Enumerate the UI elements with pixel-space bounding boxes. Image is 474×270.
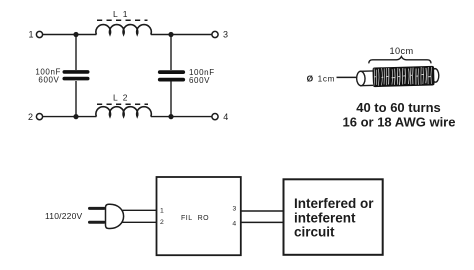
inductor L2	[96, 93, 151, 117]
svg-text:FIL: FIL	[181, 215, 193, 222]
plug P1	[90, 204, 124, 228]
inductor L1 cusp dots	[109, 32, 139, 34]
wire: terminal 1 to L1	[43, 34, 97, 36]
svg-text:110/220V: 110/220V	[45, 211, 82, 221]
wire: top junction to C1	[75, 35, 77, 71]
svg-text:1: 1	[160, 207, 164, 214]
wire: top junction to C2	[170, 35, 172, 71]
inductor L1	[96, 9, 151, 34]
svg-text:RO: RO	[198, 215, 210, 222]
wire: terminal 2 to L2	[43, 116, 97, 118]
svg-text:600V: 600V	[38, 76, 59, 85]
note: 40 to 60 turns / 16 or 18 AWG wire	[343, 100, 456, 129]
right end cap	[431, 69, 439, 83]
svg-text:1cm: 1cm	[318, 74, 336, 83]
svg-text:2: 2	[28, 112, 33, 122]
wound wire body	[373, 66, 435, 87]
wire: FIL RO pin 3 to circuit box	[241, 210, 284, 212]
wire: C1 to bottom junction	[75, 81, 77, 117]
junction node bottom-left	[73, 114, 78, 119]
svg-text:Interfered or: Interfered or	[294, 196, 374, 211]
terminal 2	[28, 112, 43, 122]
svg-text:inteferent: inteferent	[294, 210, 356, 225]
capacitor C2 100nF 600V	[160, 68, 215, 85]
coil illustration: diameter label Ø 1cm with leader	[307, 73, 357, 83]
wire: L2 to terminal 4	[151, 116, 212, 118]
inductor L2 cusp dots	[109, 114, 139, 116]
svg-text:L 2: L 2	[113, 93, 129, 103]
junction node top-left	[73, 32, 78, 37]
junction node bottom-right	[168, 114, 173, 119]
wire: L1 to terminal 3	[151, 34, 212, 36]
svg-text:1: 1	[28, 30, 33, 40]
capacitor C1 100nF 600V	[35, 67, 87, 84]
terminal 3	[212, 30, 228, 40]
svg-text:4: 4	[232, 220, 236, 227]
interfered circuit box	[284, 179, 383, 255]
coil illustration: coil body	[356, 66, 439, 88]
svg-text:40 to 60 turns: 40 to 60 turns	[356, 100, 441, 115]
terminal 4	[212, 112, 228, 122]
svg-text:Ø: Ø	[307, 73, 314, 83]
svg-text:3: 3	[223, 30, 228, 40]
coil illustration: 10cm dimension brace	[369, 46, 431, 64]
svg-text:16 or 18 AWG wire: 16 or 18 AWG wire	[343, 114, 456, 129]
wire: plug to FIL RO pin 2	[123, 221, 157, 223]
svg-text:3: 3	[233, 206, 237, 213]
wire: C2 to bottom junction	[170, 81, 172, 117]
wire: FIL RO pin 4 to circuit box	[241, 221, 284, 223]
svg-text:600V: 600V	[189, 76, 210, 85]
junction node top-right	[168, 32, 173, 37]
wire: plug to FIL RO pin 1	[123, 209, 157, 211]
FIL RO box U1	[157, 177, 241, 255]
svg-text:L 1: L 1	[113, 9, 129, 19]
terminal 1	[28, 30, 42, 40]
svg-text:10cm: 10cm	[389, 46, 413, 56]
core form left end	[360, 71, 373, 86]
svg-text:2: 2	[160, 219, 164, 226]
svg-text:4: 4	[223, 112, 228, 122]
svg-text:circuit: circuit	[294, 225, 335, 240]
